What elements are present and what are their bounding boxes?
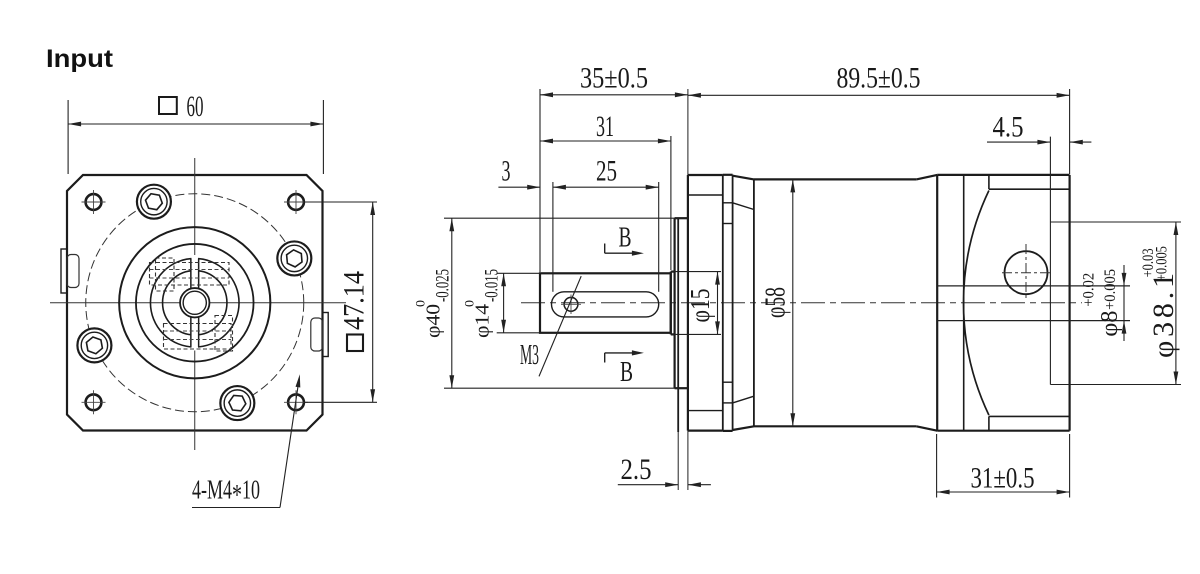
dim 25 ext right	[658, 182, 660, 292]
dim 4.5 tail right	[1070, 141, 1092, 143]
svg-text:0: 0	[462, 300, 477, 307]
corner hole 4-M4 #1	[86, 194, 102, 210]
body front section top edge	[688, 174, 723, 176]
ring shoulder chamfer top	[733, 176, 754, 180]
output flange corner vertical top	[988, 175, 990, 189]
output flange corner vertical bottom	[988, 416, 990, 430]
body front section inner line top	[688, 194, 723, 196]
keyway slot	[552, 292, 659, 317]
side hole crosshair vertical	[1025, 244, 1027, 301]
dim 31pm ext right	[1069, 434, 1071, 498]
hidden keyway rect lower wide	[164, 324, 232, 350]
flange outline (square 60 with chamfered corners)	[67, 175, 323, 431]
body front section inner line bottom	[688, 410, 723, 412]
body section divider 3	[753, 179, 755, 426]
svg-text:35±0.5: 35±0.5	[580, 62, 648, 95]
phi40 disc top edge	[675, 217, 688, 219]
svg-text:φ58: φ58	[761, 287, 792, 318]
svg-text:φ40: φ40	[423, 304, 445, 338]
dim 25 ext left	[552, 182, 554, 292]
dim phi8 text	[1080, 269, 1123, 337]
adapter plate front face	[677, 218, 679, 432]
svg-text:φ38.1: φ38.1	[1147, 273, 1180, 358]
dim phi38.1 text	[1140, 246, 1180, 358]
output flange bottom edge	[937, 430, 1069, 432]
dim phi40 line	[451, 218, 453, 388]
right edge tab slot	[311, 318, 323, 351]
dim 31 ext right	[670, 136, 672, 270]
input shaft phi14 outline	[540, 273, 671, 333]
svg-text:-0.015: -0.015	[482, 269, 503, 302]
output boss top edge + phi38.1 ext	[1050, 221, 1181, 223]
center bore inner	[183, 291, 206, 314]
pilot circle outer	[119, 227, 270, 378]
svg-text:Input: Input	[46, 45, 114, 73]
dim 2.5 tail left	[618, 484, 678, 486]
hub slot white-out	[191, 255, 198, 351]
output flange top edge	[937, 174, 1069, 176]
socket head screw #3	[220, 386, 254, 420]
svg-text:2.5: 2.5	[621, 453, 652, 486]
svg-text:B: B	[619, 222, 632, 254]
M3 tapped hole	[564, 297, 578, 311]
svg-text:3: 3	[502, 155, 511, 188]
hub slot left wall	[190, 259, 192, 288]
hidden keyway rect upper wide	[150, 263, 230, 286]
label 4-M4*10 underline	[192, 507, 280, 509]
phi15 collar top edge	[671, 271, 675, 273]
gear hub circle B	[163, 271, 227, 335]
right edge tab outer	[323, 313, 329, 357]
ring shoulder inner cone top	[733, 203, 754, 210]
svg-text:0: 0	[413, 300, 428, 307]
svg-text:31: 31	[596, 110, 614, 143]
rear chamfer bottom	[916, 426, 937, 430]
socket head screw #4	[77, 328, 111, 362]
rear chamfer top	[916, 175, 937, 180]
dim 31 line	[540, 140, 671, 142]
dim 35 line	[540, 94, 688, 96]
boss strip bottom edge	[723, 430, 733, 432]
svg-text:φ15: φ15	[685, 289, 715, 323]
boss strip inner bottom	[723, 402, 733, 404]
dimension square-47.14 ext line top	[304, 201, 377, 203]
dimension square-60 ext line left	[67, 100, 69, 174]
boss strip inner top	[723, 202, 733, 204]
hidden line lower a	[164, 330, 232, 332]
dim phi58 line	[792, 179, 794, 426]
dimension square-47.14 line	[372, 202, 374, 402]
output flange face edge bottom	[989, 415, 1070, 417]
dim phi8 line	[1123, 265, 1125, 341]
dim phi40 ext bottom	[444, 387, 688, 389]
svg-text:-0.025: -0.025	[433, 269, 454, 302]
dim 89.5 ext right	[1069, 89, 1071, 174]
dim phi40 text	[413, 269, 454, 338]
boss strip top edge	[723, 174, 733, 176]
svg-text:B: B	[620, 356, 633, 388]
dimension square-47.14 ext line bottom	[304, 401, 377, 403]
hidden line lower b	[164, 339, 232, 341]
bolt circle (dashed)	[86, 194, 304, 412]
adapter plate back face / mounting face	[687, 89, 689, 175]
output end face	[1068, 175, 1070, 431]
dimension square-60 line	[68, 123, 323, 125]
svg-text:4.5: 4.5	[993, 111, 1024, 144]
phi40 disc bottom edge	[675, 387, 688, 389]
output flange inner vertical	[963, 175, 965, 431]
svg-text:+0.005: +0.005	[1102, 269, 1119, 310]
phi58 body top edge	[754, 178, 916, 180]
svg-text:25: 25	[596, 155, 617, 188]
dim phi14 ext bottom	[497, 332, 540, 334]
hidden line upper a	[150, 269, 230, 271]
dim phi15 text	[685, 289, 715, 323]
dim 2.5 tail right	[688, 484, 711, 486]
dim 3 tail	[498, 186, 540, 188]
socket head screw #1	[137, 185, 171, 219]
output flange side hole	[1005, 251, 1048, 294]
svg-text:φ14: φ14	[472, 304, 494, 338]
output boss shoulder line	[1049, 137, 1051, 385]
output bore phi8 bottom line + ext	[937, 320, 1130, 322]
hidden keyway rect lower small	[215, 316, 233, 352]
dim 31pm ext left	[936, 434, 938, 498]
socket head screw #2	[277, 241, 311, 275]
corner hole 4-M4 #4	[288, 394, 304, 410]
corner hole 4-M4 #2	[288, 194, 304, 210]
label M3 leader	[539, 276, 581, 376]
body section divider 1	[722, 175, 724, 431]
dim 89.5 line	[688, 94, 1070, 96]
left edge tab slot	[67, 255, 79, 288]
output flange corner arc	[964, 191, 989, 416]
dim 31pm line	[937, 491, 1070, 493]
body section divider 2	[732, 175, 734, 431]
svg-text:M3: M3	[520, 340, 539, 371]
phi58 body bottom edge	[754, 425, 916, 427]
hidden line upper b	[150, 277, 230, 279]
flange centerline vertical	[194, 158, 196, 450]
output boss bottom edge + phi38.1 ext	[1050, 384, 1181, 386]
dim phi14 ext top	[497, 272, 540, 274]
label 4-M4*10 leader	[280, 387, 298, 508]
dim phi15 line	[717, 272, 719, 335]
corner hole 4-M4 #3	[86, 394, 102, 410]
dimension square-60 ext line right	[322, 100, 324, 174]
dim phi58 text	[761, 287, 792, 318]
dim phi15 ext top	[671, 271, 721, 273]
section mark B bottom	[604, 353, 606, 363]
dim phi14 text	[462, 269, 503, 338]
boss strip inner top 2	[723, 223, 733, 225]
svg-text:+0.005: +0.005	[1154, 246, 1171, 281]
ring shoulder inner cone bottom	[733, 396, 754, 403]
svg-text:89.5±0.5: 89.5±0.5	[837, 62, 921, 95]
output bore phi8 top line + ext	[937, 285, 1130, 287]
hub slot right wall	[198, 259, 200, 288]
dim phi38.1 line	[1175, 222, 1177, 385]
dimension square-60 square symbol	[159, 97, 177, 114]
gear hub circle A	[150, 258, 239, 347]
section mark B top	[604, 244, 606, 254]
svg-text:31±0.5: 31±0.5	[971, 462, 1035, 495]
body front face thick	[687, 175, 689, 431]
left edge tab outer	[61, 249, 67, 293]
phi40 disc front face	[673, 218, 675, 388]
dim phi40 ext top	[444, 217, 688, 219]
side view centerline	[521, 302, 1082, 304]
pilot circle inner	[136, 244, 254, 362]
side hole crosshair horizontal	[1002, 272, 1051, 274]
phi15 collar bottom edge	[671, 333, 675, 335]
flange centerline horizontal	[50, 302, 346, 304]
dim 4.5 tail left	[987, 141, 1050, 143]
output flange front face	[936, 175, 938, 431]
hidden keyway rect upper small	[156, 258, 175, 291]
dim phi14 line	[503, 273, 505, 333]
output flange face edge top	[989, 188, 1070, 190]
svg-text:47.14: 47.14	[338, 271, 371, 330]
body front section bottom edge	[688, 430, 723, 432]
phi15 collar step face	[670, 272, 672, 335]
svg-text:+0.02: +0.02	[1080, 273, 1097, 307]
dim phi15 ext bottom	[671, 333, 721, 335]
dimension square-47.14 text	[338, 271, 371, 351]
svg-text:φ8: φ8	[1097, 311, 1123, 337]
dim 25 line	[553, 186, 659, 188]
ring shoulder chamfer bottom	[733, 426, 754, 430]
svg-text:60: 60	[187, 90, 204, 123]
center bore outer	[180, 288, 209, 317]
boss strip inner bottom 2	[723, 381, 733, 383]
dim 35 ext left	[539, 89, 541, 272]
